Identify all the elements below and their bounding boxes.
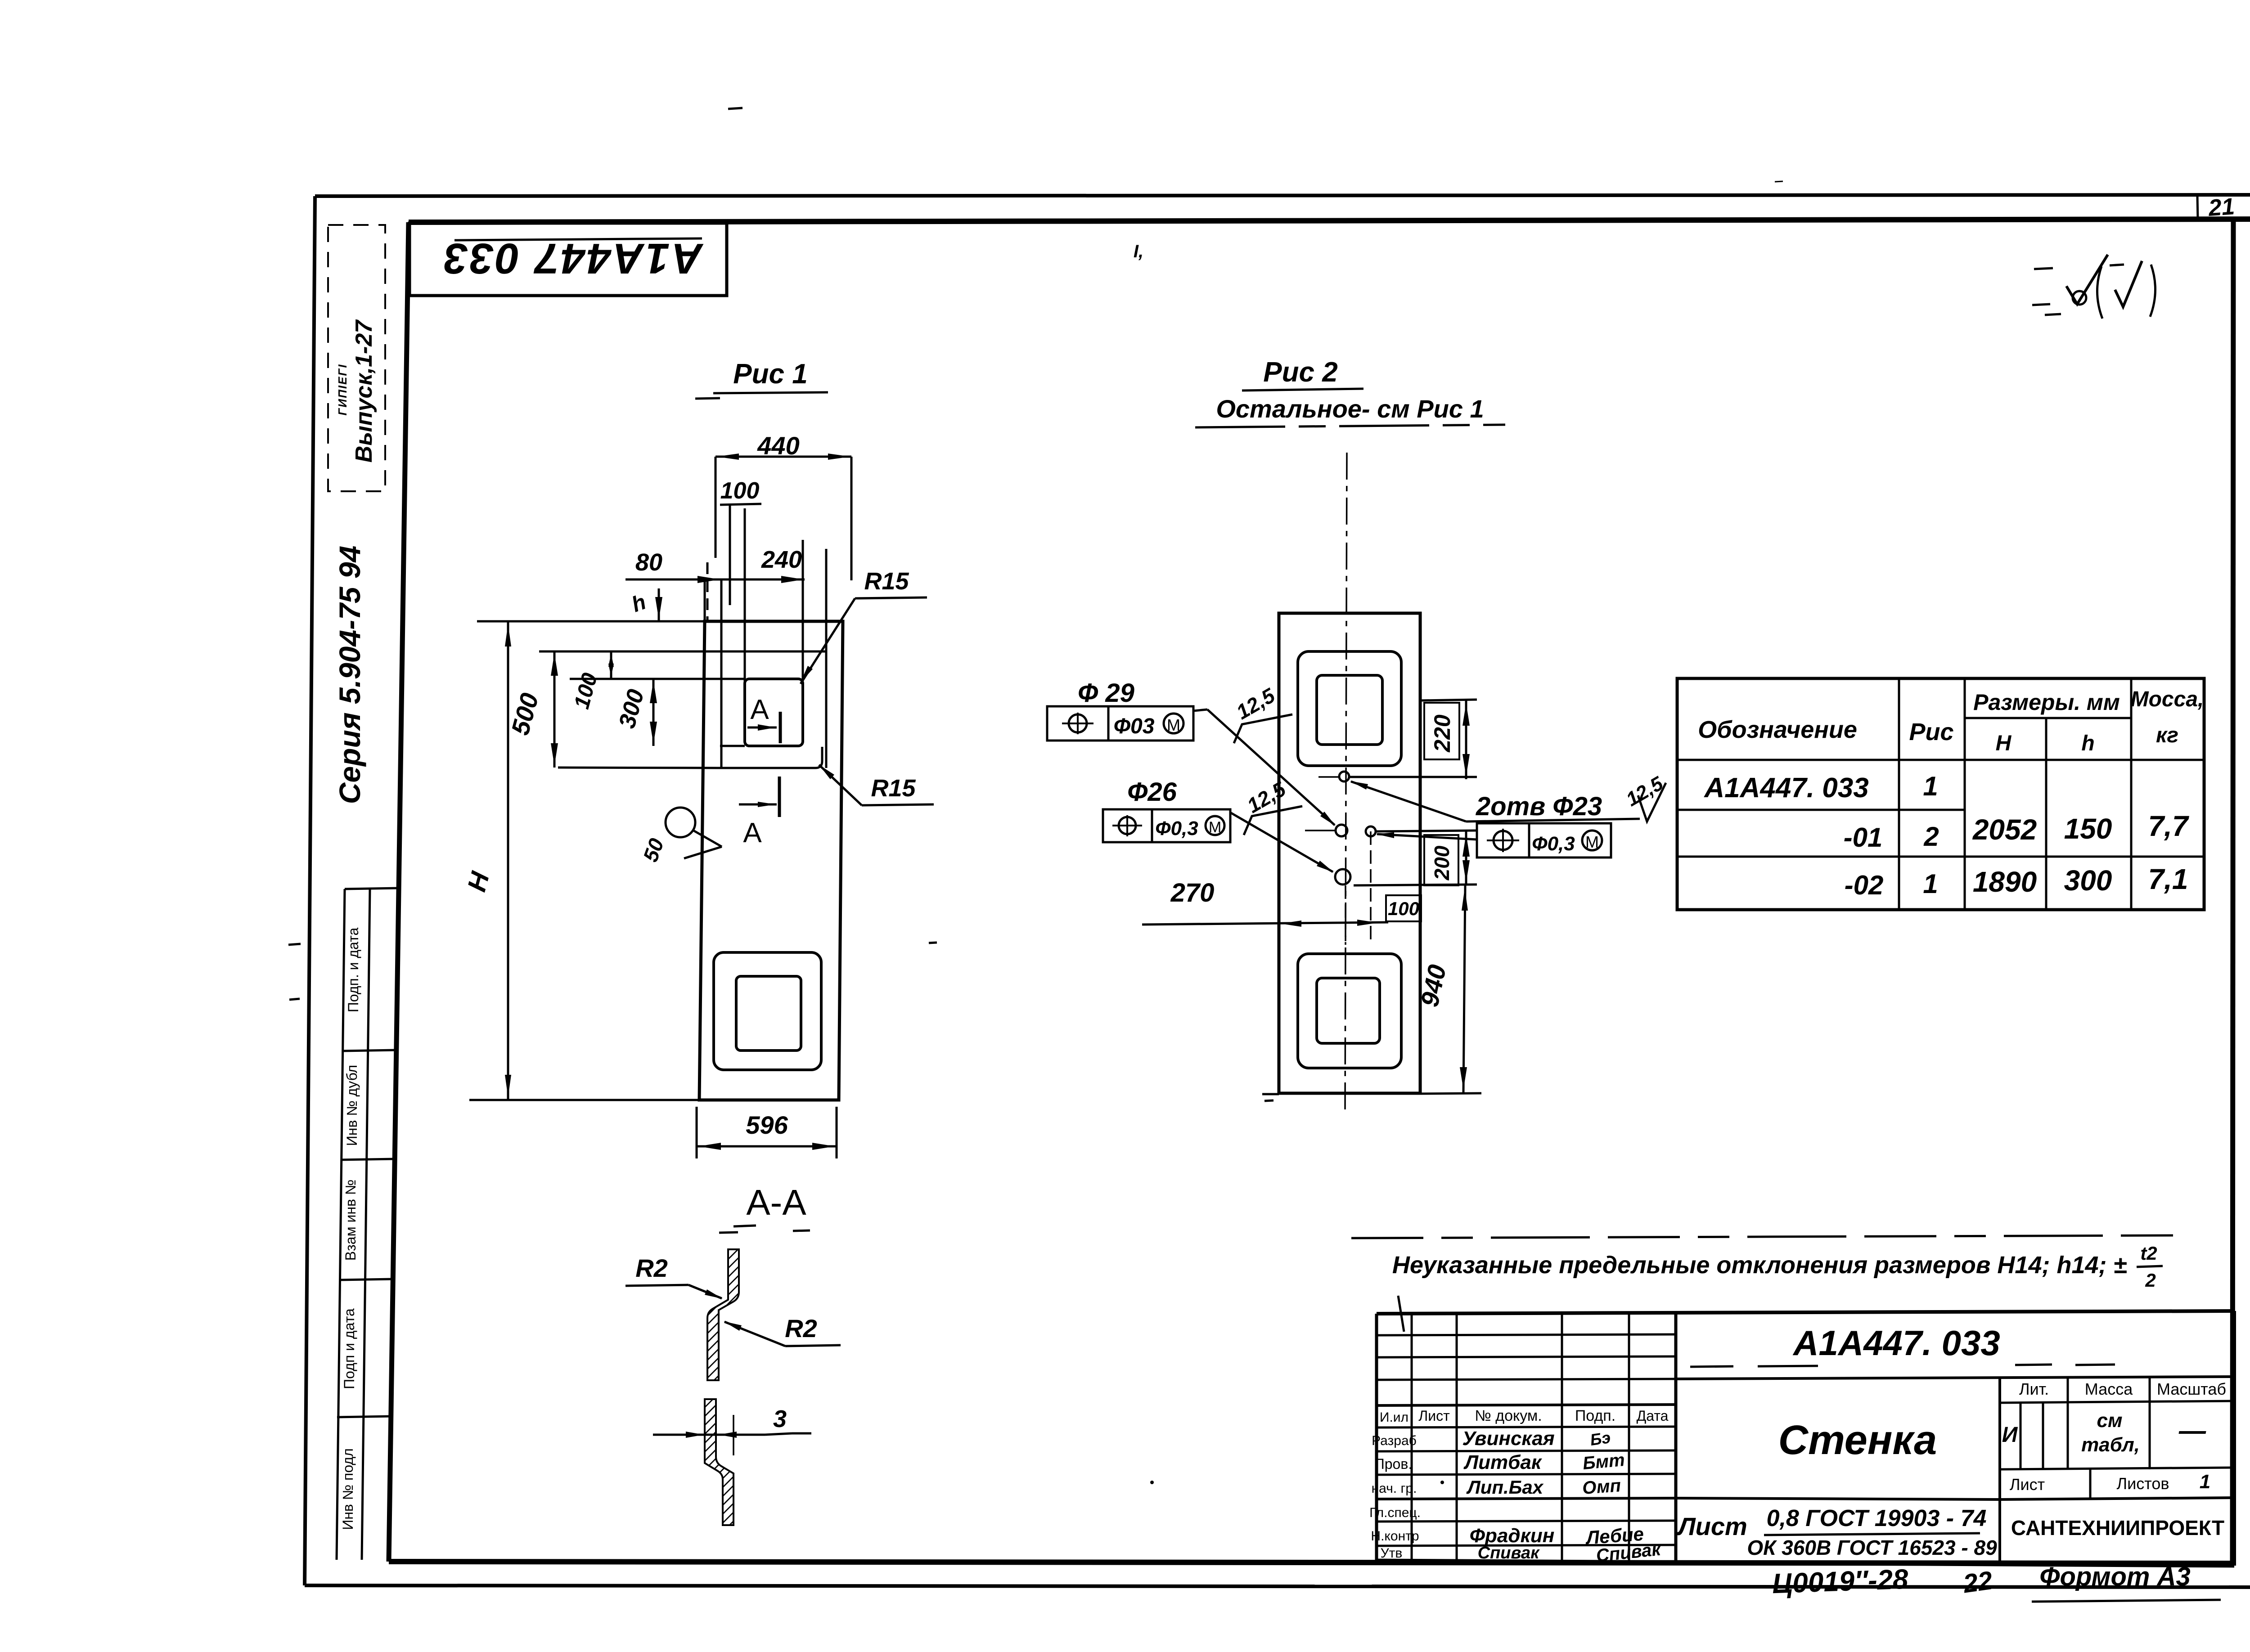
svg-text:1: 1 [2200,1471,2210,1493]
svg-text:ОК 360В ГОСТ 16523 - 89: ОК 360В ГОСТ 16523 - 89 [1747,1536,1997,1559]
dim 300 rotated [614,679,657,746]
svg-text:22: 22 [1961,1566,1994,1598]
section mark A upper [747,694,780,743]
Ris1 part left edge extension [704,579,706,621]
svg-text:Лист: Лист [1418,1408,1450,1424]
Ris1 opening left edge extension [744,508,746,682]
Ris2 top opening outer [1298,651,1401,766]
svg-text:Инв № подл: Инв № подл [340,1448,356,1530]
leader F26 to hole4 [1230,813,1334,872]
svg-text:Подп. и дата: Подп. и дата [345,928,361,1013]
svg-text:Бмт: Бмт [1582,1450,1625,1473]
svg-text:270: 270 [1170,878,1215,907]
Ris2 centerline [1345,453,1347,1111]
section A-A upper strip [707,1249,739,1380]
svg-text:Подп и дата: Подп и дата [341,1308,357,1389]
svg-text:Размеры. мм: Размеры. мм [1973,690,2120,715]
Ris1 part outline [699,621,843,1100]
svg-text:Серия 5.904-75 94: Серия 5.904-75 94 [333,546,366,804]
Ris1 flange bend lines [720,579,723,768]
svg-text:R2: R2 [785,1314,817,1342]
svg-text:Остальное- см Рис 1: Остальное- см Рис 1 [1216,395,1484,423]
roughness 12,5 near F26 [1243,777,1302,835]
svg-text:Дата: Дата [1637,1408,1669,1424]
svg-text:596: 596 [746,1111,788,1139]
dim 80 240 [625,546,805,621]
svg-text:И: И [2002,1423,2018,1447]
stray marks [728,108,2250,1484]
section mark A lower [739,777,779,848]
svg-text:САНТЕХНИИПРОЕКТ: САНТЕХНИИПРОЕКТ [2011,1516,2224,1540]
R2 callout upper [625,1254,723,1299]
dim 596 [697,1107,837,1158]
svg-text:2: 2 [2145,1270,2155,1291]
svg-text:Рис 2: Рис 2 [1263,357,1337,388]
svg-text:R15: R15 [871,775,916,802]
dim h [629,588,662,620]
Ris 1 title [695,359,828,399]
svg-text:Неуказанные предельные отклоне: Неуказанные предельные отклонения размер… [1392,1252,2127,1279]
svg-text:t2: t2 [2140,1243,2157,1264]
Ris2 bottom opening inner [1317,978,1380,1043]
svg-text:Ф03: Ф03 [1114,714,1155,738]
svg-text:ГИПІЕГІ: ГИПІЕГІ [336,364,349,415]
svg-text:М: М [1167,716,1180,734]
bottom margin notes [1772,1562,2221,1602]
svg-text:табл,: табл, [2081,1434,2140,1456]
svg-text:А1А447. 033: А1А447. 033 [1792,1323,2000,1363]
svg-text:3: 3 [773,1405,787,1432]
svg-text:Ф0,3: Ф0,3 [1155,817,1198,839]
svg-text:Омп: Омп [1582,1476,1621,1498]
svg-text:Взам инв №: Взам инв № [342,1180,359,1261]
svg-text:Бэ: Бэ [1589,1428,1612,1449]
svg-text:Лист: Лист [1676,1512,1747,1540]
svg-text:80: 80 [635,549,662,576]
section A-A lower strip [705,1399,733,1525]
svg-text:-01: -01 [1844,822,1883,853]
dim 3 thickness [653,1405,811,1455]
roughness 12,5 right [1622,772,1667,822]
leader F29 to hole2 [1193,709,1336,826]
dim H [462,621,705,1100]
hole 3 mid-right [1305,826,1376,945]
svg-text:№ докум.: № докум. [1475,1407,1542,1424]
svg-text:М: М [1585,833,1599,851]
svg-text:2отв Ф23: 2отв Ф23 [1476,792,1602,821]
dim 440 [715,431,851,580]
svg-text:1: 1 [1923,771,1938,801]
svg-text:А-А: А-А [746,1182,806,1222]
svg-text:Масштаб: Масштаб [2157,1380,2226,1398]
svg-text:Ф0,3: Ф0,3 [1532,833,1575,855]
svg-text:А1А447 033: А1А447 033 [442,234,703,283]
Ris1 top opening inner contour [570,508,803,746]
svg-text:2: 2 [1923,822,1939,852]
svg-text:150: 150 [2064,813,2112,845]
svg-text:Подп.: Подп. [1575,1407,1615,1424]
svg-text:Разраб: Разраб [1372,1433,1417,1448]
svg-text:7,7: 7,7 [2148,810,2190,842]
R15 callout lower [819,765,934,805]
dim 100 upper with leader [720,478,761,605]
svg-text:Увинская: Увинская [1462,1428,1554,1450]
title block signatures [1462,1428,1662,1566]
svg-text:1890: 1890 [1973,866,2037,898]
dim 200 boxed [1354,830,1477,885]
svg-text:100: 100 [720,478,760,504]
svg-text:І,: І, [1134,242,1143,261]
Ris1 opening right edge extension [802,540,804,679]
svg-text:2052: 2052 [1972,813,2037,846]
drawing frame [389,219,2250,1563]
hole 4 big [1335,869,1350,884]
dim 500 [506,651,558,768]
label 2otv F23 [1350,781,1640,822]
series stamp dashed box [328,225,385,491]
material cell [1676,1505,1997,1559]
inverted stamp box A1A447 033 [409,223,727,296]
dim 100 boxed [1386,895,1421,921]
svg-text:220: 220 [1430,714,1455,753]
svg-text:кг: кг [2156,723,2178,747]
svg-text:1: 1 [1923,869,1938,899]
svg-text:Ц0019″-28: Ц0019″-28 [1772,1564,1909,1600]
svg-text:Гл.спец.: Гл.спец. [1369,1505,1421,1520]
svg-text:200: 200 [1430,845,1453,880]
R2 callout lower [724,1314,841,1346]
Ris 2 title [1195,357,1505,427]
svg-text:А1А447. 033: А1А447. 033 [1703,772,1868,804]
feature frame F29 [1047,678,1193,741]
svg-text:см: см [2097,1410,2122,1432]
Ris2 part outline [1279,613,1420,1093]
svg-text:Литбак: Литбак [1463,1451,1543,1473]
svg-text:-02: -02 [1845,870,1884,900]
hole 1 top [1318,772,1349,781]
svg-text:7,1: 7,1 [2148,863,2188,895]
callout 50 circle [639,808,722,865]
dim 940 [1262,885,1481,1101]
svg-text:R2: R2 [635,1254,668,1282]
svg-text:Выпуск,1-27: Выпуск,1-27 [351,319,377,463]
svg-text:Ф 29: Ф 29 [1078,678,1134,708]
svg-text:Ф26: Ф26 [1127,777,1177,807]
svg-text:Рис 1: Рис 1 [733,359,807,390]
tolerance note [1351,1235,2173,1332]
svg-text:А: А [750,694,769,725]
svg-text:Пров.: Пров. [1374,1456,1412,1472]
svg-text:Обозначение: Обозначение [1698,716,1857,743]
svg-text:Масса: Масса [2085,1380,2133,1398]
svg-text:—: — [2178,1415,2206,1445]
svg-text:И.ил: И.ил [1380,1410,1408,1425]
svg-text:0,8 ГОСТ 19903 - 74: 0,8 ГОСТ 19903 - 74 [1767,1505,1987,1531]
R15 callout upper [801,568,927,684]
svg-text:Мосса,: Мосса, [2131,687,2204,711]
svg-text:Рис: Рис [1909,718,1953,745]
feature frame F26 [1103,777,1230,842]
Ris2 bottom opening outer [1298,954,1401,1068]
svg-text:Спивак: Спивак [1478,1544,1540,1562]
Ris1 lower opening inner contour [736,976,801,1050]
Ris1 lower opening outer contour [714,952,821,1070]
svg-text:Лип.Бах: Лип.Бах [1466,1477,1544,1498]
section A-A title [719,1182,810,1233]
svg-text:Инв № дубл: Инв № дубл [344,1065,360,1146]
svg-text:Утв: Утв [1381,1546,1403,1561]
svg-text:Н.контр: Н.контр [1371,1529,1419,1544]
svg-text:А: А [743,817,762,848]
margin label boxes [337,888,399,1560]
svg-text:Н: Н [1996,732,2012,755]
dim 270 [1142,878,1388,945]
svg-text:Формот А3: Формот А3 [2039,1562,2191,1591]
title block header texts [1369,1407,1669,1561]
parts table [1677,678,2204,910]
svg-text:нач. гр.: нач. гр. [1372,1481,1417,1496]
svg-text:Стенка: Стенка [1778,1417,1937,1463]
roughness mark top right [2032,255,2155,319]
Ris2 top opening inner [1317,675,1382,745]
dim 100 left rotated [570,651,614,712]
svg-text:240: 240 [761,546,802,573]
svg-text:Лит.: Лит. [2019,1380,2049,1398]
dim 220 boxed [1350,700,1477,779]
hole 2 mid-left [1336,825,1347,836]
feature frame 2otv [1376,823,1611,857]
roughness 12,5 near F29 [1232,683,1292,743]
stray ticks left margin [288,944,301,945]
svg-text:Листов: Листов [2117,1474,2169,1493]
sheet outer border [305,195,2250,1587]
svg-text:h: h [2081,732,2094,755]
sheet number box 21 [2197,193,2250,221]
svg-text:Лист: Лист [2010,1475,2045,1494]
svg-text:300: 300 [2064,864,2112,897]
svg-text:100: 100 [1388,898,1419,919]
designation A1A447 033 big [1690,1323,2115,1367]
svg-text:R15: R15 [864,568,909,595]
svg-text:21: 21 [2207,193,2236,221]
Ris1 top opening outer contour [539,651,826,768]
title block grid [1377,1311,2234,1566]
svg-text:М: М [1209,819,1221,836]
lit mass scale headers [2002,1380,2226,1494]
